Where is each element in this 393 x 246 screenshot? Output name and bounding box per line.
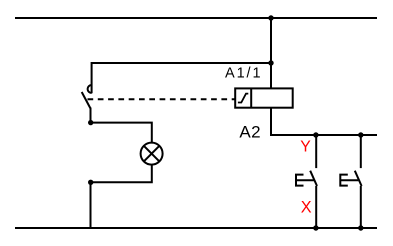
- wire top supply rail: [15, 17, 377, 19]
- lamp H1 circle: [141, 143, 163, 165]
- wire lamp bottom loop: [91, 165, 152, 183]
- wire down to bottom rail: [90, 182, 92, 228]
- relay coil K1 divider: [250, 88, 252, 107]
- timed contact blade: [82, 92, 91, 109]
- timed contact delay arc: [88, 85, 92, 93]
- wire bottom supply rail: [15, 227, 377, 229]
- node junction dot top of contact S2: [358, 132, 363, 137]
- contact S1 lower terminal: [315, 186, 317, 228]
- node junction dot top rail: [268, 15, 273, 20]
- node junction dot bottom of contact S2: [358, 225, 363, 230]
- contact S2 manual actuator: [340, 175, 358, 186]
- timed contact lower terminal: [90, 108, 92, 123]
- node junction dot bottom of contact S1: [313, 225, 318, 230]
- contact S1 manual actuator: [296, 175, 314, 186]
- relay coil K1 body: [235, 88, 293, 107]
- node junction dot contact to lamp: [88, 120, 93, 125]
- wire branch A1 to timed contact: [92, 63, 271, 93]
- node junction dot Y top of contact S1: [313, 132, 318, 137]
- contact S1 blade: [310, 171, 317, 186]
- relay coil K1 on-delay timer symbol: [238, 94, 248, 103]
- wire contact to lamp top: [91, 123, 152, 142]
- contact S1 upper terminal: [315, 135, 317, 168]
- wire A2 horizontal from coil bottom to contacts: [270, 134, 377, 136]
- contact S2 blade: [355, 171, 362, 186]
- svg-text:Y: Y: [300, 139, 311, 156]
- contact S2 upper terminal: [360, 135, 362, 168]
- wire vertical from top rail to relay coil K1: [270, 18, 272, 135]
- mechanical link dashed line: [88, 98, 236, 100]
- lamp H1 cross stroke 2: [144, 146, 160, 162]
- contact S2 lower terminal: [360, 186, 362, 228]
- svg-text:X: X: [301, 199, 312, 217]
- node junction dot lamp return: [88, 180, 93, 185]
- svg-text:A2: A2: [239, 122, 261, 141]
- lamp H1 cross stroke 1: [144, 146, 160, 162]
- svg-text:A1/1: A1/1: [225, 65, 262, 81]
- node junction dot A1 branch: [268, 60, 273, 65]
